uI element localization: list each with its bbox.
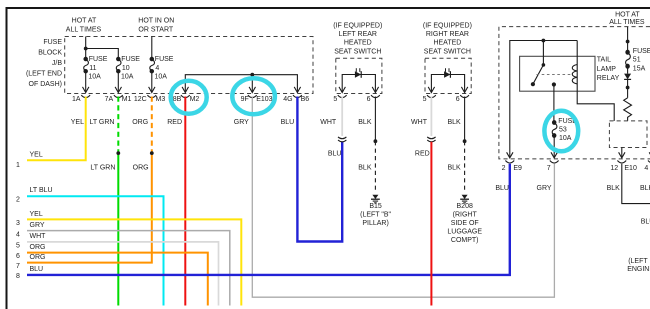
svg-text:SEAT SWITCH: SEAT SWITCH <box>334 48 381 55</box>
left switch internal wire <box>342 75 375 93</box>
relay contact arm <box>533 41 544 85</box>
svg-text:10A: 10A <box>88 74 101 81</box>
wire YEL from 1A to row 1 <box>27 97 86 161</box>
fuse 4 <box>150 57 155 73</box>
relay fixed contact <box>552 82 556 86</box>
fuse 53 <box>552 121 557 138</box>
svg-text:9F: 9F <box>241 96 249 103</box>
svg-text:2: 2 <box>16 197 20 204</box>
connector sub box E10 dashed <box>609 121 647 148</box>
svg-text:8: 8 <box>16 273 20 280</box>
svg-text:YEL: YEL <box>30 152 43 159</box>
fuse block J/B dashed box <box>65 37 313 94</box>
svg-text:BLU: BLU <box>495 185 509 192</box>
junction dot bus <box>250 73 254 77</box>
pin 5 right switch <box>427 87 436 98</box>
svg-text:LT GRN: LT GRN <box>89 119 114 126</box>
svg-text:GRY: GRY <box>537 185 552 192</box>
svg-text:(IF EQUIPPED): (IF EQUIPPED) <box>333 23 382 30</box>
svg-text:5: 5 <box>16 242 20 249</box>
svg-text:B15: B15 <box>369 203 382 210</box>
svg-text:FUSE: FUSE <box>633 48 650 55</box>
wire from 2 E9 to relay bus <box>510 41 577 158</box>
connector 12C M3 <box>147 87 156 98</box>
splice connector right <box>427 137 435 142</box>
svg-text:YEL: YEL <box>30 211 43 218</box>
svg-text:10: 10 <box>122 65 130 72</box>
wire row 4 GRY <box>27 231 230 306</box>
diode (right switch) <box>444 71 450 78</box>
svg-text:4G: 4G <box>283 96 292 103</box>
svg-text:BLK: BLK <box>640 185 650 192</box>
svg-text:(LEFT END: (LEFT END <box>26 71 62 78</box>
svg-text:PILLAR): PILLAR) <box>362 220 388 227</box>
connector 7 <box>550 152 559 163</box>
svg-text:BLK: BLK <box>358 164 372 171</box>
svg-text:BLU: BLU <box>328 151 342 158</box>
label HOT AT ALL TIMES (right) <box>609 11 645 26</box>
svg-text:ALL TIMES: ALL TIMES <box>66 27 102 34</box>
svg-text:51: 51 <box>633 57 641 64</box>
left seat switch dashed box <box>336 58 382 93</box>
svg-text:7: 7 <box>547 165 551 172</box>
svg-text:7A: 7A <box>105 96 114 103</box>
connector 4G B6 <box>293 87 302 98</box>
svg-text:5: 5 <box>333 96 337 103</box>
wire feed fuse 11/10 <box>86 37 119 60</box>
wire fuse4 to 12C <box>151 71 153 92</box>
svg-text:ORG: ORG <box>30 254 46 261</box>
wire fuse10 to 7A <box>117 71 119 92</box>
svg-text:RED: RED <box>415 151 430 158</box>
svg-text:OR START: OR START <box>138 27 173 34</box>
ground B15 <box>371 195 380 203</box>
connector 4 <box>648 152 650 163</box>
svg-text:BLK: BLK <box>607 185 621 192</box>
label HOT AT ALL TIMES (left) <box>66 18 102 34</box>
wire RED right switch <box>430 142 432 306</box>
pin 5 left switch <box>338 87 347 98</box>
wire ORG from 12C to row 7 <box>151 97 153 154</box>
wire row 3 YEL <box>27 219 241 305</box>
svg-text:LT GRN: LT GRN <box>90 165 115 172</box>
svg-text:E103: E103 <box>256 96 272 103</box>
svg-text:RED: RED <box>167 119 182 126</box>
fuse 51 <box>626 50 631 68</box>
svg-text:J/B: J/B <box>52 60 62 67</box>
tail lamp relay box <box>520 56 595 91</box>
svg-text:LT BLU: LT BLU <box>30 187 53 194</box>
svg-text:GRY: GRY <box>30 222 45 229</box>
svg-text:12C: 12C <box>134 96 147 103</box>
svg-text:2: 2 <box>502 165 506 172</box>
svg-text:M1: M1 <box>122 96 132 103</box>
svg-text:1: 1 <box>16 162 20 169</box>
svg-text:TAIL: TAIL <box>597 56 611 63</box>
svg-text:FUSE: FUSE <box>43 39 62 46</box>
svg-text:BLU: BLU <box>30 266 44 273</box>
wire row 8 BLU to connector 2 E9 <box>27 164 510 275</box>
svg-text:ORG: ORG <box>30 244 46 251</box>
svg-text:6: 6 <box>367 96 371 103</box>
label HOT IN ON OR START <box>138 18 174 34</box>
fuse 11 <box>84 57 89 73</box>
connector 1A <box>81 87 90 98</box>
relay linkage dashed <box>537 74 572 76</box>
wire row 5 WHT <box>27 242 219 306</box>
svg-text:BLK: BLK <box>358 119 372 126</box>
wire fuse 53 to connector 7 <box>553 136 555 158</box>
svg-text:10A: 10A <box>155 74 168 81</box>
svg-text:4: 4 <box>16 231 20 238</box>
wire relay contact to fuse 53 <box>553 85 555 123</box>
svg-text:BLK: BLK <box>447 164 461 171</box>
connector 2 E9 <box>505 152 514 163</box>
svg-text:M2: M2 <box>190 96 200 103</box>
wire fuse 51 feed <box>627 27 629 53</box>
svg-text:FUSE: FUSE <box>121 56 140 63</box>
svg-text:E10: E10 <box>624 165 637 172</box>
diode (fuse 51 branch) <box>627 66 629 73</box>
svg-text:WHT: WHT <box>320 119 337 126</box>
svg-text:GRY: GRY <box>234 119 249 126</box>
svg-text:E9: E9 <box>513 165 522 172</box>
svg-text:FUSE: FUSE <box>155 56 174 63</box>
svg-text:WHT: WHT <box>30 233 47 240</box>
svg-text:5: 5 <box>423 96 427 103</box>
highlight circle FUSE 53 <box>544 111 578 152</box>
junction dot bus <box>542 39 546 43</box>
fuse 10 <box>116 57 121 73</box>
svg-text:LEFT REAR: LEFT REAR <box>339 31 377 38</box>
svg-text:15A: 15A <box>633 65 646 72</box>
splice connector left <box>338 137 346 142</box>
svg-text:BLK: BLK <box>447 119 461 126</box>
wire row 2 LT BLU <box>27 196 164 305</box>
svg-text:HEATED: HEATED <box>344 40 372 47</box>
svg-text:11: 11 <box>89 65 96 72</box>
wire BLK from 12 E10 <box>622 164 650 204</box>
svg-text:YEL: YEL <box>71 119 84 126</box>
bus wire to 8B 9F 4G <box>185 75 297 93</box>
connector 8B M2 <box>181 87 190 98</box>
svg-text:OF DASH): OF DASH) <box>29 81 62 88</box>
highlight circle 9F E103 <box>232 78 275 114</box>
wire feed fuse 4 <box>151 37 153 60</box>
right seat switch dashed box <box>425 58 471 93</box>
pin 6 left switch <box>371 87 380 98</box>
resistor <box>624 98 632 121</box>
svg-text:6: 6 <box>16 253 20 260</box>
svg-text:12: 12 <box>610 165 618 172</box>
svg-text:LAMP: LAMP <box>597 66 616 73</box>
svg-text:HOT IN ON: HOT IN ON <box>138 18 174 25</box>
connector 12 E10 <box>617 152 626 163</box>
svg-text:(LEFT "B": (LEFT "B" <box>360 212 391 219</box>
svg-text:LUGGAGE: LUGGAGE <box>447 229 482 236</box>
diode (left switch) <box>355 71 361 78</box>
svg-text:RIGHT REAR: RIGHT REAR <box>426 31 469 38</box>
right dashed box <box>499 27 650 159</box>
svg-text:WHT: WHT <box>411 119 428 126</box>
svg-text:ORG: ORG <box>132 119 148 126</box>
svg-text:4: 4 <box>155 65 159 72</box>
wire GRY from 9F E103 to connector 7 <box>252 97 554 298</box>
svg-text:SIDE OF: SIDE OF <box>451 220 479 227</box>
svg-text:(IF EQUIPPED): (IF EQUIPPED) <box>423 23 472 30</box>
svg-text:(RIGHT: (RIGHT <box>453 212 478 219</box>
svg-text:1A: 1A <box>72 96 81 103</box>
wire row 6 ORG <box>27 253 208 306</box>
junction dot <box>84 47 88 51</box>
wire RED from 8B <box>184 97 186 306</box>
wire BLK right switch <box>464 97 466 142</box>
svg-text:ENGINE: ENGINE <box>627 266 650 273</box>
svg-text:BLU: BLU <box>641 218 650 225</box>
wire to connector 12 E10 <box>621 148 623 158</box>
svg-text:ALL TIMES: ALL TIMES <box>609 19 645 26</box>
svg-text:BLU: BLU <box>281 119 295 126</box>
svg-text:(LEFT: (LEFT <box>628 258 648 265</box>
svg-text:8B: 8B <box>173 96 182 103</box>
svg-text:B208: B208 <box>457 203 473 210</box>
svg-text:COMPT): COMPT) <box>451 237 479 244</box>
connector 7A M1 <box>114 87 123 98</box>
relay coil <box>572 41 614 121</box>
svg-text:M3: M3 <box>156 96 166 103</box>
svg-text:4: 4 <box>644 165 648 172</box>
svg-text:BLOCK: BLOCK <box>38 50 62 57</box>
connector 9F E103 <box>248 87 257 98</box>
wire fuse11 to 1A <box>85 71 87 92</box>
highlight circle 8B M2 <box>171 81 207 114</box>
ground B208 <box>460 195 469 203</box>
right switch internal wire <box>431 75 464 93</box>
wire BLU from 4G B6 to splice <box>297 97 342 242</box>
svg-text:HOT AT: HOT AT <box>72 18 97 25</box>
wire BLK left switch <box>374 97 376 142</box>
svg-text:10A: 10A <box>121 74 134 81</box>
svg-text:RELAY: RELAY <box>597 75 620 82</box>
svg-text:HOT AT: HOT AT <box>615 11 640 18</box>
right rear heated seat switch label <box>423 23 472 56</box>
svg-text:HEATED: HEATED <box>433 40 461 47</box>
fuse block label <box>26 39 62 88</box>
wire WHT left switch <box>341 97 343 136</box>
svg-text:6: 6 <box>456 96 460 103</box>
pin 6 right switch <box>460 87 469 98</box>
svg-text:3: 3 <box>16 220 20 227</box>
svg-text:ORG: ORG <box>133 165 149 172</box>
svg-text:SEAT SWITCH: SEAT SWITCH <box>424 48 471 55</box>
svg-text:B6: B6 <box>301 96 310 103</box>
wire WHT right switch <box>430 97 432 136</box>
svg-text:53: 53 <box>559 127 567 134</box>
svg-text:FUSE: FUSE <box>89 56 108 63</box>
wire LT GRN from 7A <box>117 97 119 154</box>
svg-text:10A: 10A <box>559 135 572 142</box>
svg-text:7: 7 <box>16 263 20 270</box>
left rear heated seat switch label <box>333 23 382 56</box>
